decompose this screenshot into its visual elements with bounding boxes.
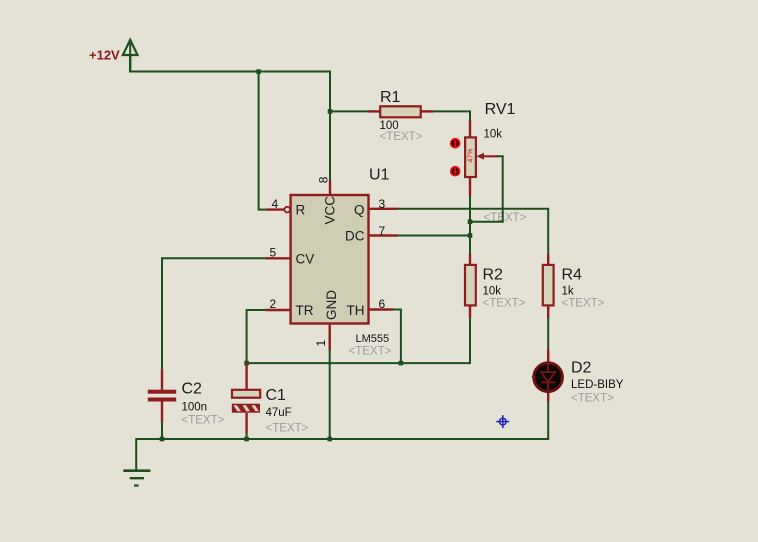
resistor R1 [368, 89, 434, 143]
capacitor C1 [232, 363, 309, 435]
node top rail / pin4 branch [256, 69, 261, 74]
IC U1 LM555 [266, 167, 398, 358]
svg-text:10k: 10k [483, 285, 502, 297]
svg-text:<TEXT>: <TEXT> [571, 393, 614, 405]
svg-text:<TEXT>: <TEXT> [562, 297, 605, 309]
power +12V [89, 40, 138, 73]
svg-text:VCC: VCC [323, 196, 338, 225]
node C1 rail junction [244, 437, 249, 442]
svg-text:7: 7 [379, 224, 386, 238]
svg-text:CV: CV [296, 251, 315, 266]
svg-text:47uF: 47uF [266, 407, 292, 419]
svg-text:C1: C1 [266, 387, 287, 404]
svg-text:<TEXT>: <TEXT> [182, 415, 225, 427]
svg-text:Q: Q [354, 203, 365, 218]
wire GND pin1 down [329, 350, 331, 439]
LED D2 [532, 350, 624, 405]
svg-text:D2: D2 [571, 360, 592, 377]
node DC junction [468, 233, 473, 238]
wire bottom rail [136, 439, 548, 471]
node R1 branch [328, 109, 333, 114]
svg-text:R2: R2 [483, 267, 504, 284]
wire node to R1 [330, 110, 369, 112]
pin 3 lead [369, 208, 398, 210]
svg-text:6: 6 [379, 297, 386, 311]
node GND rail junction [327, 437, 332, 442]
pin 8 lead [329, 180, 331, 195]
svg-text:8: 8 [317, 176, 331, 183]
pin 5 lead [266, 257, 291, 259]
origin marker [496, 415, 509, 428]
svg-text:100n: 100n [182, 402, 208, 414]
wire TR pin2 down to junction [247, 310, 266, 363]
node RV1 wiper junction [468, 219, 473, 224]
svg-text:C2: C2 [182, 381, 203, 398]
pin 6 lead [369, 308, 394, 310]
wire down to pin 4 [259, 72, 266, 210]
wire RV1 bottom to R2 top [469, 196, 471, 255]
potentiometer RV1 [450, 101, 527, 224]
pin 1 lead [329, 324, 331, 351]
wire DC pin7 to RV1 bottom node [397, 235, 470, 237]
wire TH pin6 down [393, 310, 401, 364]
svg-text:47%: 47% [467, 148, 474, 162]
svg-text:<TEXT>: <TEXT> [380, 131, 423, 143]
svg-text:1k: 1k [562, 285, 574, 297]
resistor R2 [465, 254, 526, 318]
wire RV1 wiper to RV1 bottom [471, 156, 503, 221]
capacitor C2 [148, 369, 225, 427]
svg-text:GND: GND [324, 290, 339, 320]
svg-text:R: R [296, 203, 306, 218]
wire top rail +12V [129, 71, 331, 73]
svg-text:DC: DC [345, 228, 365, 243]
wire Q pin3 to R4 [397, 209, 548, 254]
svg-text:2: 2 [270, 297, 277, 311]
wire R1 to RV1 top [433, 111, 470, 121]
wire TH horizontal to R2 bottom [247, 317, 470, 363]
node C2 rail junction [160, 437, 165, 442]
svg-text:R1: R1 [380, 89, 401, 106]
pin 7 lead [369, 234, 398, 236]
svg-text:TR: TR [296, 303, 314, 318]
wire C2 to bottom rail [161, 422, 163, 440]
wire down to VCC pin 8 [329, 71, 331, 182]
svg-text:+12V: +12V [89, 48, 120, 63]
svg-text:<TEXT>: <TEXT> [483, 297, 526, 309]
svg-text:5: 5 [270, 246, 277, 260]
svg-text:RV1: RV1 [485, 101, 516, 118]
wire LED to bottom rail [547, 401, 549, 440]
svg-text:3: 3 [379, 197, 386, 211]
ground [123, 471, 150, 486]
svg-text:LM555: LM555 [356, 333, 390, 345]
svg-text:LED-BIBY: LED-BIBY [571, 379, 624, 391]
wire R4 bottom to LED [547, 317, 549, 350]
svg-text:TH: TH [347, 303, 365, 318]
svg-text:<TEXT>: <TEXT> [349, 346, 392, 358]
svg-text:4: 4 [272, 197, 279, 211]
node TH junction [399, 361, 404, 366]
svg-text:1: 1 [314, 340, 328, 347]
wire CV pin5 to C2 [162, 258, 266, 370]
pin 4 lead [266, 208, 285, 210]
svg-text:<TEXT>: <TEXT> [266, 423, 309, 435]
node TR/C1 junction [244, 361, 249, 366]
svg-text:R4: R4 [562, 267, 583, 284]
svg-text:U1: U1 [369, 167, 390, 184]
resistor R4 [543, 254, 605, 318]
pin 2 lead [266, 309, 291, 311]
svg-text:10k: 10k [484, 129, 503, 141]
wire C1 to bottom rail [246, 433, 248, 440]
